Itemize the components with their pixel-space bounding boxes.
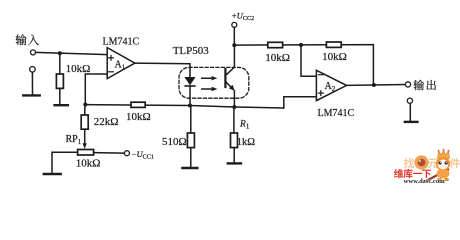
svg-text:10kΩ: 10kΩ bbox=[265, 52, 290, 64]
wiper arrow into RP1 bbox=[84, 129, 86, 144]
wire A2 output bbox=[347, 84, 406, 87]
wire divider to A2 inverting input bbox=[301, 45, 316, 76]
terminal -UCC1 bbox=[94, 152, 125, 155]
phototransistor bbox=[224, 69, 226, 87]
svg-text:RP1: RP1 bbox=[66, 134, 82, 146]
node emitter/rail bbox=[232, 105, 236, 109]
input label 输入 bbox=[16, 34, 39, 45]
op-amp A1 bbox=[107, 48, 135, 79]
svg-text:www.dzsc.com: www.dzsc.com bbox=[404, 178, 446, 185]
svg-text:LM741C: LM741C bbox=[318, 108, 355, 119]
node divider junction bbox=[299, 43, 303, 47]
svg-text:LM741C: LM741C bbox=[103, 36, 140, 47]
ground (under input shunt) bbox=[55, 104, 68, 106]
node LED cathode / rail bbox=[188, 104, 192, 108]
svg-text:1kΩ: 1kΩ bbox=[237, 137, 256, 148]
wire bottom rail bbox=[85, 105, 283, 108]
ground (R1) bbox=[228, 162, 241, 164]
wire top rail bbox=[234, 45, 373, 85]
ground (RP1) bbox=[44, 173, 61, 175]
resistor 10kΩ (A2 feedback top) bbox=[326, 42, 341, 47]
node rail/22k junction bbox=[83, 103, 87, 107]
svg-text:+UCC2: +UCC2 bbox=[232, 10, 254, 22]
ground (510Ω) bbox=[182, 167, 197, 169]
output label 输出 bbox=[413, 80, 435, 90]
node input/shunt junction bbox=[58, 51, 62, 55]
wire collector to +UCC2 rail bbox=[233, 45, 235, 67]
supply +UCC2 terminal bbox=[232, 10, 254, 22]
ground (output) bbox=[405, 121, 418, 123]
ground (input side) bbox=[23, 94, 39, 96]
output terminal bbox=[405, 82, 410, 87]
svg-text:R1: R1 bbox=[239, 120, 250, 131]
wire A1 inverting input bbox=[85, 74, 107, 105]
svg-text:10kΩ: 10kΩ bbox=[322, 51, 347, 63]
resistor 10kΩ (input shunt) bbox=[59, 53, 61, 74]
LED (emitter diode) bbox=[184, 77, 195, 85]
optocoupler TLP503 dashed package bbox=[179, 67, 249, 98]
wire input to A1 noninverting input bbox=[36, 52, 108, 54]
input terminal bbox=[31, 50, 36, 55]
svg-text:10kΩ: 10kΩ bbox=[76, 158, 101, 170]
wire RP1 left to ground bbox=[52, 152, 78, 173]
svg-text:−UCC1: −UCC1 bbox=[132, 149, 154, 161]
wire emitter to rail bbox=[233, 91, 235, 107]
resistor R1 1kΩ bbox=[233, 107, 235, 133]
light arrows bbox=[202, 78, 213, 89]
svg-text:22kΩ: 22kΩ bbox=[94, 116, 119, 128]
output ground terminal bbox=[407, 98, 412, 103]
input ground terminal bbox=[30, 67, 36, 73]
resistor 22kΩ bbox=[84, 105, 86, 116]
svg-text:TLP503: TLP503 bbox=[173, 45, 210, 57]
node +UCC2/collector bbox=[232, 43, 236, 47]
watermark (dzsc.com logo) bbox=[394, 149, 460, 185]
resistor 510Ω bbox=[190, 106, 192, 133]
resistor 10kΩ (A1 feedback, bottom) bbox=[131, 102, 145, 107]
potentiometer RP1 10kΩ bbox=[78, 150, 94, 156]
node output/feedback bbox=[372, 83, 376, 87]
op-amp A2 bbox=[316, 70, 346, 100]
wire emitter node to A2 noninverting input bbox=[284, 97, 317, 108]
wire A1 output to LED anode bbox=[135, 63, 190, 77]
svg-text:510Ω: 510Ω bbox=[162, 136, 187, 148]
svg-text:10kΩ: 10kΩ bbox=[126, 111, 151, 123]
resistor 10kΩ (top left) bbox=[268, 42, 283, 47]
